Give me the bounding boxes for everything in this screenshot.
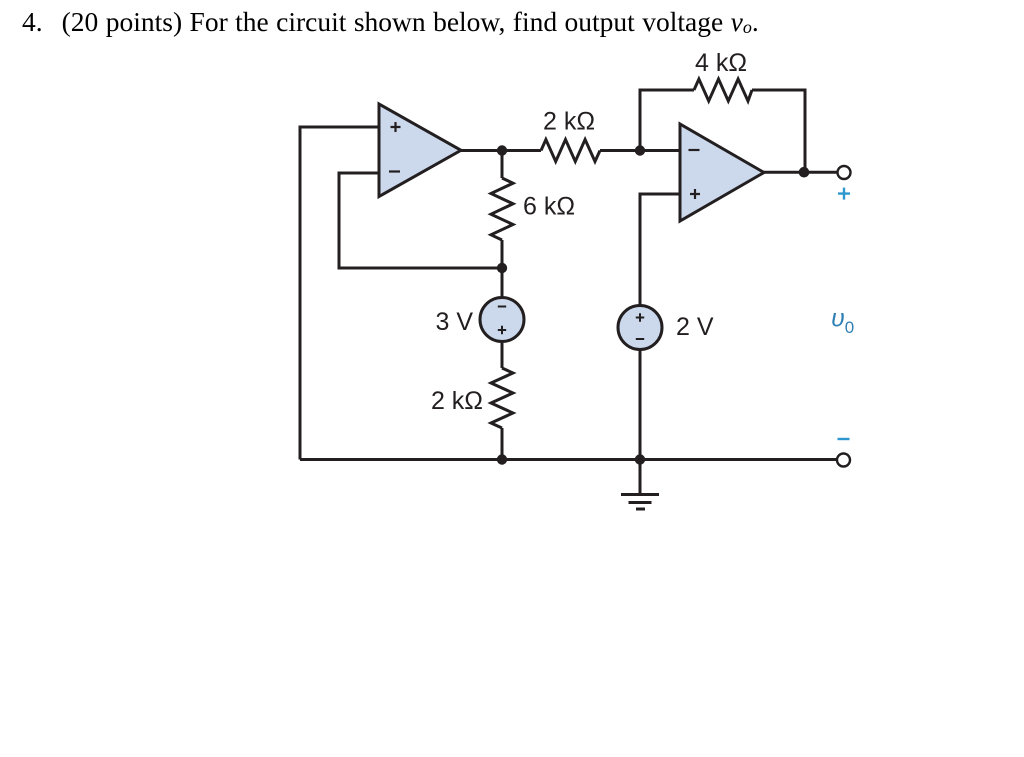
wire: left rail from U1 + input down to bottom rail — [300, 127, 379, 460]
node C (R1 / U2 inverting / R4) — [635, 145, 645, 155]
wire: R4 right to U2 output node D — [752, 90, 805, 172]
wire: bottom ground rail — [300, 458, 837, 461]
resistor R1 2 kOhm (U1 output to node C) — [541, 140, 600, 162]
source V1 3V — [480, 298, 524, 342]
wire: V1 bottom to R3 top — [501, 342, 504, 369]
wire: node B to V1 top — [501, 268, 504, 298]
wire: R3 bottom to bottom rail — [501, 428, 504, 460]
label vo+ polarity plus (blue) — [838, 188, 850, 200]
wire: U2 + input to V2 top — [640, 194, 680, 306]
svg-text:6 kΩ: 6 kΩ — [523, 193, 575, 221]
op-amp U2 — [680, 124, 764, 221]
wire: R2 bottom to node B — [501, 240, 504, 268]
terminal vo- (open circle) — [837, 454, 850, 467]
ground — [621, 460, 659, 510]
wire: R1 right to U2 inverting input — [600, 149, 680, 152]
svg-text:2 V: 2 V — [676, 313, 714, 341]
resistor R2 6 kOhm (node A to node B) — [491, 178, 513, 240]
svg-text:2 kΩ: 2 kΩ — [543, 108, 595, 136]
source V2 2V — [618, 306, 662, 350]
resistor R4 4 kOhm (feedback over U2) — [694, 79, 752, 101]
node F (V2 / ground junction) — [635, 454, 645, 464]
wire: node C up to feedback rail and R4 left — [640, 90, 694, 151]
svg-text:υ0: υ0 — [831, 305, 854, 338]
wire: U1 output to R1 left — [461, 149, 541, 152]
svg-text:3 V: 3 V — [435, 308, 473, 336]
node B (feedback / V1 top) — [497, 263, 507, 273]
terminal vo+ (open circle) — [838, 166, 851, 179]
node A (U1 output / R2 top) — [497, 145, 507, 155]
svg-text:2 kΩ: 2 kΩ — [431, 387, 483, 415]
label vo- polarity minus (blue) — [838, 438, 850, 440]
node E (R3 bottom on rail) — [497, 454, 507, 464]
wire: V2 bottom to ground rail — [639, 350, 642, 460]
svg-text:4 kΩ: 4 kΩ — [695, 49, 747, 77]
op-amp U1 — [379, 104, 461, 197]
problem statement title — [22, 6, 759, 43]
resistor R3 2 kOhm (below V1) — [491, 368, 513, 428]
wire: node A down to R2 top — [501, 151, 504, 179]
wire: U2 output to vo+ terminal — [764, 171, 838, 174]
wire: U1 inverting input feedback (node B to - input) — [339, 173, 502, 268]
node D (U2 output junction) — [799, 167, 810, 178]
